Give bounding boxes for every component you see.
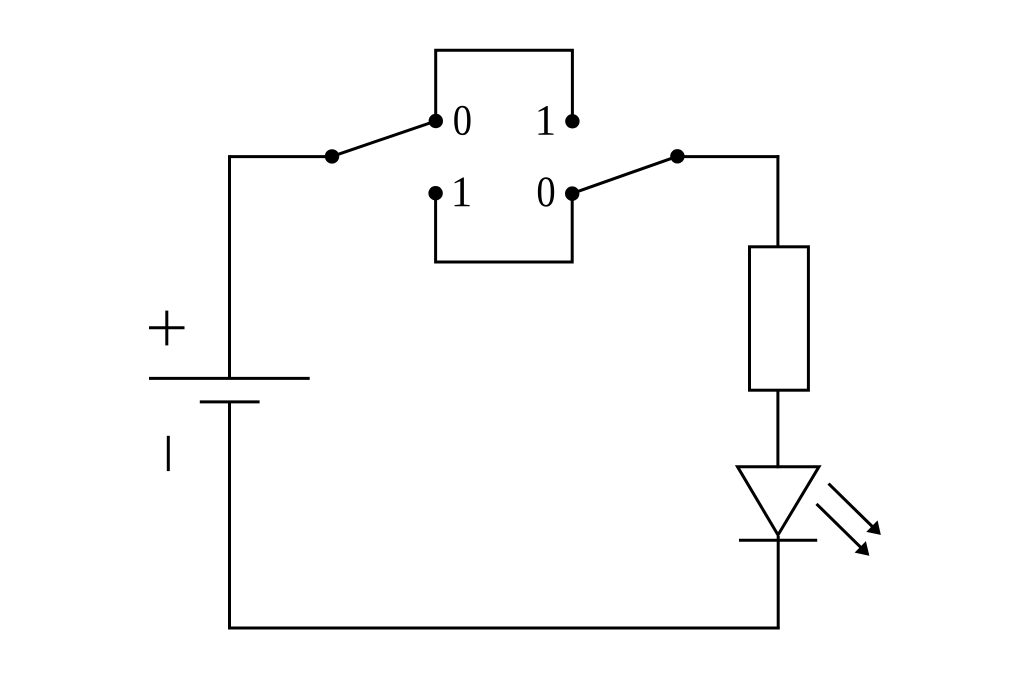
switch S1 blade (common pole to contact 0) — [332, 121, 436, 156]
contact dot: S2 position 1 — [428, 186, 442, 200]
wire: from resistor bottom to LED anode — [776, 390, 779, 468]
wire: right vertical from bottom rail up to LED cathode — [777, 536, 780, 630]
battery BT1 positive plate (long) — [149, 377, 310, 380]
wire: left vertical from battery negative plate down to bottom rail — [228, 402, 231, 628]
wire: bottom loop connecting S2 contact 1 to S2 contact 0 — [436, 193, 573, 262]
svg-text:1: 1 — [535, 97, 557, 144]
wire: top-left horizontal from corner to switch S1 common — [230, 155, 333, 158]
svg-text:0: 0 — [536, 169, 555, 216]
contact dot: S2 position 0 — [565, 186, 579, 200]
LED D1 triangle (anode) — [738, 467, 820, 535]
wire: horizontal from switch S2 common to right corner — [677, 155, 779, 158]
LED D1 cathode bar — [739, 539, 817, 542]
LED D1 light arrow 1 — [829, 484, 881, 535]
junction dot: switch S2 common pole — [670, 149, 684, 163]
LED D1 light arrow 2 — [817, 504, 869, 555]
wire: left vertical from corner down to battery positive plate — [228, 155, 231, 378]
battery BT1 negative plate (short) — [200, 400, 260, 403]
svg-text:0: 0 — [453, 98, 472, 145]
contact dot: S1 position 1 — [565, 114, 579, 128]
svg-text:1: 1 — [451, 169, 473, 216]
junction dot: switch S1 common pole — [325, 149, 339, 163]
wire: bottom rail — [228, 627, 780, 630]
resistor R1 body — [750, 247, 809, 390]
switch S2 blade (contact 0 to common pole) — [572, 156, 677, 193]
battery label minus sign (drawn vertical) — [167, 436, 170, 471]
battery label plus sign — [149, 311, 185, 346]
wire: top loop connecting S1 contact 0 to S1 contact 1 — [436, 50, 573, 121]
contact dot: S1 position 0 — [429, 114, 443, 128]
wire: from resistor top up to corner — [776, 155, 779, 247]
